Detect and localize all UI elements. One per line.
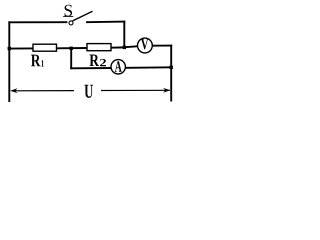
resistor R2 xyxy=(87,44,111,51)
node: junction ammeter row / right vertical xyxy=(170,66,173,69)
wire: ammeter to right vertical xyxy=(125,66,171,69)
wire: top segment right of switch xyxy=(87,21,124,24)
U arrow left segment with arrowhead xyxy=(10,88,74,93)
node: junction top drop / middle wire xyxy=(123,46,126,49)
label S (underlined) xyxy=(63,5,73,17)
wire: top segment left of switch xyxy=(9,21,66,23)
ammeter A xyxy=(111,60,125,74)
wire: branch drop from node to ammeter row xyxy=(70,48,72,68)
wire: branch to ammeter xyxy=(71,67,111,69)
label U (applied voltage) xyxy=(85,85,94,98)
wire: R1 to branch node xyxy=(57,47,88,49)
switch S blade xyxy=(73,11,93,21)
wire: middle left (left node to R1) xyxy=(9,47,33,49)
voltmeter V xyxy=(138,38,153,53)
wire: right drop from top wire to middle node xyxy=(123,22,125,48)
wire: voltmeter to right corner xyxy=(152,45,171,47)
wire: middle node to voltmeter xyxy=(124,45,137,48)
resistor R1 xyxy=(33,44,57,51)
wire: R2 to middle node xyxy=(111,46,124,48)
node: junction left vertical / middle wire xyxy=(8,47,11,50)
U arrow right segment with arrowhead xyxy=(101,88,170,93)
label R1 xyxy=(31,55,44,67)
label R2 xyxy=(90,55,106,67)
switch S pivot circle xyxy=(69,21,73,25)
node: junction branch split after R1 xyxy=(70,47,73,50)
wire: right vertical terminal xyxy=(170,46,172,101)
wire: left vertical terminal xyxy=(8,22,10,101)
